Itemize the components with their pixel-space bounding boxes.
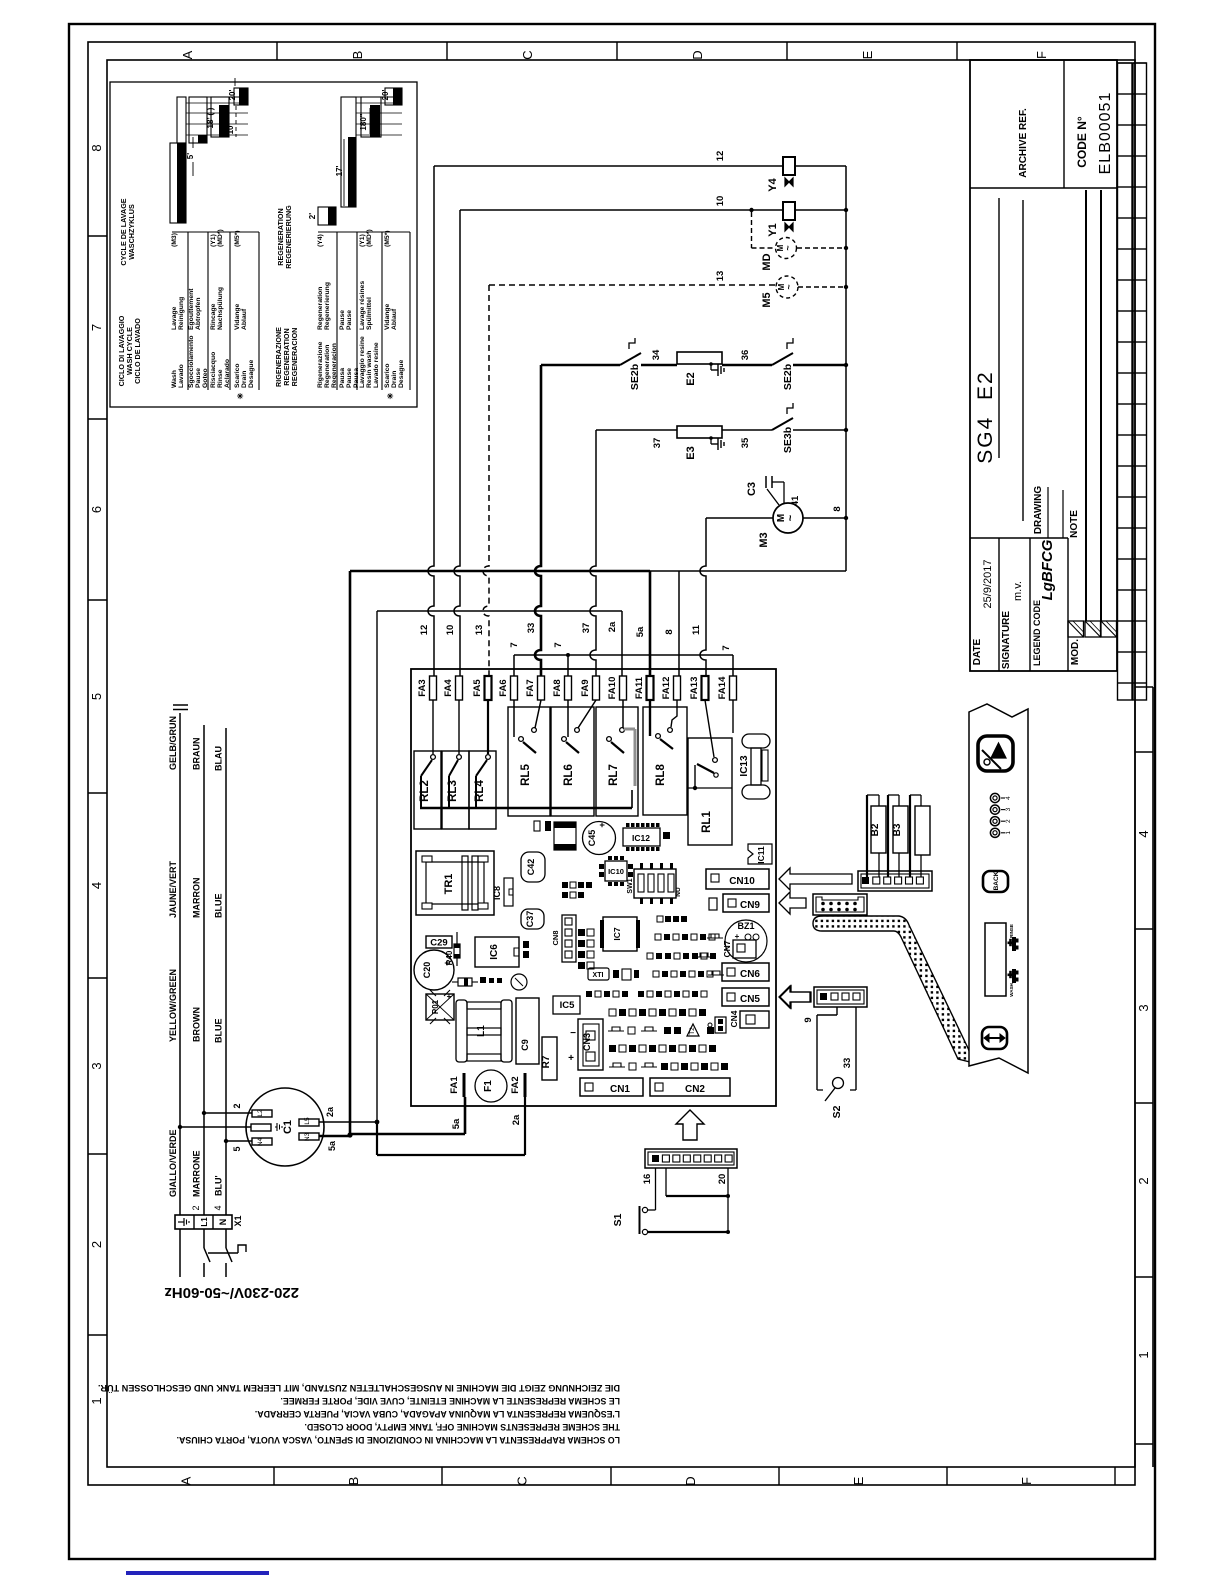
diode D	[452, 978, 478, 986]
svg-text:Lavaggio resine: Lavaggio resine	[359, 336, 366, 388]
svg-text:C42: C42	[526, 859, 536, 876]
svg-text:D: D	[683, 1476, 698, 1485]
IC11	[748, 844, 772, 864]
net 7 stub FA8	[553, 642, 570, 676]
svg-text:4: 4	[1005, 796, 1012, 800]
svg-text:FA8: FA8	[552, 679, 563, 696]
svg-text:BROWN: BROWN	[192, 1007, 202, 1042]
relay RL4	[469, 700, 496, 829]
capacitor C29	[426, 936, 452, 949]
solenoid Y1	[767, 202, 848, 237]
net 13 wire M5	[474, 271, 776, 676]
PCB board outline	[411, 669, 776, 1106]
svg-text:P01: P01	[431, 999, 440, 1014]
svg-text:FA5: FA5	[472, 679, 483, 697]
svg-text:M5: M5	[761, 292, 773, 307]
svg-text:5: 5	[232, 1146, 242, 1151]
panel rinse icon	[1008, 924, 1019, 951]
svg-text:L1: L1	[200, 1217, 209, 1227]
svg-text:7: 7	[553, 642, 564, 647]
svg-text:MARRONE: MARRONE	[192, 1151, 202, 1198]
svg-text:16: 16	[642, 1174, 653, 1185]
svg-text:Y1: Y1	[767, 223, 779, 236]
svg-text:E: E	[860, 50, 875, 59]
svg-text:IC13: IC13	[739, 755, 750, 777]
svg-text:Regeneration: Regeneration	[317, 287, 324, 330]
svg-text:4: 4	[89, 882, 104, 889]
net 2a horizontal	[377, 610, 622, 612]
svg-text:B: B	[350, 51, 365, 60]
connector CN10	[706, 869, 769, 889]
svg-text:E2: E2	[685, 372, 697, 385]
arrow 4-pin	[780, 986, 811, 1008]
svg-text:5: 5	[89, 693, 104, 700]
svg-text:+: +	[735, 932, 740, 941]
svg-text:LO SCHEMA RAPPRESENTA LA MACCH: LO SCHEMA RAPPRESENTA LA MACCHINA IN CON…	[177, 1435, 620, 1445]
svg-text:FA9: FA9	[580, 679, 591, 696]
svg-text:CN4: CN4	[729, 1010, 739, 1027]
svg-text:NU: NU	[675, 887, 682, 897]
svg-text:2': 2'	[308, 213, 317, 219]
IC10	[599, 856, 633, 886]
svg-text:E: E	[851, 1476, 866, 1485]
svg-text:SE2b: SE2b	[629, 364, 641, 390]
fuse FA10	[607, 676, 627, 700]
svg-text:RL7: RL7	[608, 764, 620, 786]
fuse FA4	[443, 676, 463, 700]
wire earth giallo/verde	[168, 705, 188, 1215]
svg-text:10: 10	[715, 196, 726, 207]
fuse FA13	[689, 676, 709, 700]
svg-text:Drain: Drain	[391, 371, 398, 388]
svg-text:JAUNE/VERT: JAUNE/VERT	[168, 860, 178, 918]
svg-text:Pause: Pause	[339, 310, 346, 330]
svg-text:C37: C37	[525, 911, 535, 928]
smd row h	[609, 1009, 706, 1016]
svg-text:20: 20	[717, 1174, 728, 1185]
svg-text:8: 8	[89, 144, 104, 151]
svg-text:1: 1	[1005, 831, 1012, 835]
svg-text:10: 10	[445, 625, 456, 636]
svg-text:F: F	[1034, 51, 1049, 59]
fuse FA11	[634, 676, 654, 700]
svg-text:A: A	[180, 50, 195, 59]
svg-text:SIGNATURE: SIGNATURE	[1001, 611, 1012, 669]
svg-text:RL3: RL3	[447, 780, 459, 802]
svg-text:ARCHIVE REF.: ARCHIVE REF.	[1018, 108, 1029, 178]
svg-text:L1: L1	[476, 1025, 487, 1037]
resistor R7	[541, 1037, 557, 1080]
svg-text:FA4: FA4	[443, 679, 454, 697]
svg-text:C: C	[520, 50, 535, 59]
svg-text:BLUE: BLUE	[214, 894, 224, 919]
svg-text:Drain: Drain	[241, 371, 248, 388]
svg-text:BLUE: BLUE	[214, 1019, 224, 1044]
svg-text:REGENERIERUNG: REGENERIERUNG	[284, 205, 293, 269]
driver IC13	[733, 700, 770, 799]
svg-text:37: 37	[652, 438, 663, 449]
svg-text:5a: 5a	[327, 1140, 337, 1151]
svg-text:RL1: RL1	[701, 811, 713, 833]
svg-text:IC7: IC7	[612, 927, 622, 941]
svg-text:DATE: DATE	[972, 638, 983, 665]
capacitor C9	[516, 998, 539, 1064]
switch S1	[612, 1168, 730, 1235]
svg-text:13: 13	[474, 625, 485, 636]
svg-text:CN5: CN5	[740, 994, 760, 1005]
thermostat SE2b right	[722, 338, 848, 390]
svg-text:FA11: FA11	[634, 676, 645, 699]
svg-text:2a: 2a	[511, 1114, 522, 1125]
svg-text:Pausa: Pausa	[339, 368, 346, 388]
svg-text:8: 8	[664, 629, 675, 634]
IC6	[475, 937, 529, 967]
smd row k	[609, 1063, 728, 1070]
relay RL5	[508, 700, 550, 816]
net 12 wire Y4	[419, 151, 783, 676]
svg-text:2: 2	[191, 1205, 201, 1210]
arrow to S1	[676, 1110, 704, 1140]
IC7	[600, 917, 640, 951]
svg-text:Y4: Y4	[767, 177, 779, 191]
svg-text:S2: S2	[831, 1105, 843, 1118]
heater E3	[677, 426, 751, 460]
led part	[511, 974, 527, 990]
svg-text:Scarico: Scarico	[234, 363, 241, 388]
svg-text:Resin wash: Resin wash	[366, 351, 373, 388]
svg-text:M3: M3	[758, 532, 770, 547]
svg-text:MD: MD	[761, 253, 773, 270]
svg-text:~: ~	[783, 245, 793, 250]
svg-text:RINSE: RINSE	[1009, 924, 1014, 938]
resistor B2	[867, 795, 886, 877]
panel start button	[978, 736, 1013, 771]
fuse FA3	[417, 676, 437, 700]
svg-text:IC10: IC10	[608, 867, 624, 876]
fuse FA2	[510, 1073, 527, 1097]
connector S1 strip	[642, 1149, 737, 1184]
fuse FA1	[449, 1073, 466, 1097]
svg-text:Desague: Desague	[248, 359, 255, 388]
svg-text:8: 8	[832, 506, 843, 511]
svg-text:CN1: CN1	[610, 1084, 630, 1095]
svg-text:20': 20'	[381, 90, 390, 101]
fuse FA5	[472, 676, 492, 700]
svg-text:Abtropfen: Abtropfen	[195, 298, 202, 330]
net 2a drop to FA10	[607, 611, 622, 676]
smd near XTI	[613, 969, 639, 980]
connector 4-pin	[814, 987, 867, 1007]
net 2a from C1	[319, 611, 525, 1155]
svg-text:GIALLO/VERDE: GIALLO/VERDE	[168, 1129, 178, 1197]
svg-text:RL6: RL6	[563, 764, 575, 786]
svg-text:IC6: IC6	[489, 944, 500, 960]
thermostat SE2b left	[620, 338, 641, 390]
svg-text:Rinse: Rinse	[217, 369, 224, 388]
svg-text:(Y1): (Y1)	[359, 234, 366, 247]
svg-text:Desague: Desague	[398, 359, 405, 388]
smd cluster b	[578, 929, 594, 969]
smd near D	[480, 977, 502, 983]
IC5	[553, 996, 580, 1014]
svg-text:5a: 5a	[451, 1118, 462, 1129]
svg-text:C3: C3	[746, 482, 758, 496]
IC12	[623, 823, 670, 851]
crystal and smd row top	[534, 821, 576, 850]
svg-text:7: 7	[509, 642, 520, 647]
svg-text:4: 4	[213, 1205, 223, 1210]
svg-text:BLU': BLU'	[214, 1175, 224, 1196]
svg-text:FA12: FA12	[661, 677, 672, 700]
svg-text:SE2b: SE2b	[782, 364, 794, 390]
motor M5 dashed	[761, 276, 848, 308]
relay RL2	[414, 700, 441, 829]
svg-text:LEGEND CODE: LEGEND CODE	[1032, 600, 1042, 666]
svg-text:Vidange: Vidange	[384, 303, 391, 330]
svg-text:3: 3	[89, 1062, 104, 1069]
svg-text:2: 2	[89, 1241, 104, 1248]
smd row j	[609, 1045, 716, 1052]
svg-text:m.v.: m.v.	[1012, 581, 1024, 601]
svg-text:220-230V/~50-60Hz: 220-230V/~50-60Hz	[164, 1284, 299, 1301]
svg-text:FA10: FA10	[607, 677, 618, 700]
smd row e	[647, 953, 716, 959]
svg-text:2: 2	[1136, 1177, 1151, 1184]
svg-text:(Y1): (Y1)	[210, 234, 217, 247]
svg-text:THE SCHEME REPRESENTS MACHINE: THE SCHEME REPRESENTS MACHINE OFF, TANK …	[304, 1422, 620, 1432]
label 220-230V supply	[164, 1284, 299, 1301]
svg-text:25/9/2017: 25/9/2017	[982, 560, 994, 609]
panel leds	[990, 793, 1012, 837]
svg-text:SE3b: SE3b	[782, 427, 794, 453]
relay RL6	[551, 700, 596, 816]
fuse FA9	[580, 676, 600, 700]
svg-text:2: 2	[1005, 819, 1012, 823]
svg-text:6: 6	[89, 506, 104, 513]
svg-text:TR1: TR1	[443, 874, 455, 895]
svg-text:Lavado resine: Lavado resine	[373, 342, 380, 388]
svg-text:FA1: FA1	[449, 1076, 460, 1094]
fuse FA12	[661, 676, 681, 700]
svg-text:+: +	[444, 958, 449, 968]
crystal XTI	[588, 968, 609, 980]
svg-text:Lavage résines: Lavage résines	[359, 281, 366, 330]
svg-text:Pause: Pause	[195, 368, 202, 388]
svg-text:N4: N4	[257, 1137, 264, 1146]
svg-text:13: 13	[715, 271, 726, 282]
switch S2	[803, 1007, 856, 1118]
svg-text:B: B	[346, 1477, 361, 1486]
svg-text:✳: ✳	[236, 392, 245, 399]
svg-text:CN10: CN10	[729, 876, 755, 887]
terminal block X1	[175, 1205, 243, 1229]
connector 10-pin	[813, 894, 867, 915]
connector CN2	[650, 1078, 730, 1096]
svg-text:Scarico: Scarico	[384, 363, 391, 388]
svg-text:BZ1: BZ1	[737, 921, 754, 931]
svg-text:Egouttement: Egouttement	[188, 288, 195, 330]
capacitor C3	[746, 476, 801, 506]
arrow CN9	[779, 892, 806, 914]
svg-text:LE SCHEMA REPRESENTE LA MACHIN: LE SCHEMA REPRESENTE LA MACHINE ETEINTE,…	[280, 1396, 620, 1406]
svg-text:IC5: IC5	[560, 1000, 576, 1011]
svg-text:(M5*): (M5*)	[384, 230, 391, 247]
connector CN3	[568, 1019, 603, 1070]
svg-text:RL8: RL8	[655, 764, 667, 786]
svg-text:35: 35	[740, 437, 751, 448]
panel display	[985, 923, 1006, 996]
net 37 wire	[581, 430, 677, 676]
svg-text:BLAU: BLAU	[214, 746, 224, 771]
IC8	[492, 878, 513, 906]
connector CN4	[729, 1010, 769, 1028]
svg-text:3: 3	[1136, 1004, 1151, 1011]
net 5a drop to FA11 thick	[635, 571, 650, 676]
smd row c	[657, 916, 687, 922]
svg-text:L5: L5	[304, 1117, 311, 1125]
svg-text:FA2: FA2	[510, 1076, 521, 1093]
thermostat SE3b	[722, 403, 848, 453]
net 33 wire thick	[526, 365, 620, 676]
relay RL7	[596, 700, 638, 816]
heater E2	[641, 349, 751, 386]
svg-text:5a: 5a	[635, 626, 646, 637]
smd cluster a	[562, 882, 592, 898]
svg-text:WASCHZYKLUS: WASCHZYKLUS	[127, 204, 136, 260]
connector CN8	[551, 915, 576, 962]
svg-text:4: 4	[1136, 830, 1151, 837]
connector CN5	[722, 988, 769, 1006]
choke L1	[456, 1000, 512, 1062]
svg-text:BACK: BACK	[993, 871, 1000, 890]
resistor B4	[910, 795, 930, 877]
transformer TR1	[416, 851, 494, 915]
net 10 wire Y1	[445, 196, 783, 676]
svg-text:C9: C9	[520, 1039, 530, 1051]
svg-text:RL2: RL2	[419, 780, 431, 802]
svg-text:(M3): (M3)	[171, 233, 178, 247]
svg-text:Spülmittel: Spülmittel	[366, 297, 373, 330]
svg-text:11: 11	[691, 624, 702, 635]
relay RL8	[643, 700, 687, 815]
transistor T2	[687, 1024, 699, 1036]
svg-text:XTI: XTI	[593, 972, 604, 979]
svg-text:REGENERACION: REGENERACION	[290, 328, 299, 387]
svg-text:Nachspülung: Nachspülung	[217, 287, 224, 330]
svg-text:C29: C29	[430, 938, 447, 949]
svg-text:Lavage: Lavage	[171, 306, 178, 330]
filter capacitor C1	[246, 1088, 324, 1166]
svg-text:+: +	[568, 1053, 574, 1064]
resistor R40	[445, 932, 460, 966]
svg-text:E3: E3	[685, 446, 697, 459]
net 7 stub FA6	[509, 642, 520, 676]
svg-text:(Y4): (Y4)	[317, 234, 324, 247]
relay RL1	[688, 700, 732, 845]
svg-text:GELB/GRUN: GELB/GRUN	[168, 716, 178, 770]
smd row d	[655, 934, 723, 940]
smd row g	[586, 991, 707, 997]
svg-text:2: 2	[232, 1103, 242, 1108]
svg-text:MARRON: MARRON	[192, 878, 202, 919]
panel wash icon	[1008, 969, 1019, 997]
svg-text:RL5: RL5	[520, 764, 532, 786]
svg-text:33: 33	[842, 1058, 853, 1069]
svg-text:DIE ZEICHNUNG ZEIGT DIE MACHIN: DIE ZEICHNUNG ZEIGT DIE MACHINE IN AUSGE…	[98, 1383, 620, 1393]
svg-text:CN2: CN2	[685, 1084, 705, 1095]
svg-text:CN3: CN3	[582, 1033, 592, 1051]
svg-text:CN6: CN6	[740, 969, 760, 980]
svg-text:7: 7	[721, 645, 732, 650]
svg-text:Wash: Wash	[171, 370, 178, 388]
front panel strip	[969, 704, 1028, 1073]
svg-text:~: ~	[784, 284, 794, 289]
svg-text:FA7: FA7	[525, 679, 536, 696]
svg-text:FA14: FA14	[717, 676, 728, 699]
svg-text:+: +	[597, 822, 607, 827]
svg-text:CODE N°: CODE N°	[1075, 116, 1089, 168]
smd row f	[653, 971, 724, 977]
svg-text:R7: R7	[541, 1055, 552, 1068]
svg-text:Lavado: Lavado	[178, 364, 185, 388]
svg-text:Pause: Pause	[346, 310, 353, 330]
buzzer BZ1	[722, 920, 767, 962]
net 5a/8 horizontal bus	[350, 570, 846, 572]
arrow CN10	[779, 868, 852, 890]
svg-text:Regenerierung: Regenerierung	[324, 282, 331, 330]
svg-text:B2: B2	[870, 823, 881, 836]
svg-text:SW1: SW1	[627, 878, 634, 893]
relay common bus	[420, 790, 632, 808]
svg-text:CN7: CN7	[722, 940, 732, 957]
svg-text:T2: T2	[689, 1027, 696, 1035]
grey trace RL7	[624, 729, 635, 786]
capacitor C45	[583, 822, 616, 855]
svg-text:180": 180"	[359, 113, 368, 130]
svg-text:FA13: FA13	[689, 677, 700, 700]
svg-text:CICLO DE LAVADO: CICLO DE LAVADO	[133, 318, 142, 384]
net 7 stub FA14	[721, 645, 733, 676]
svg-text:5': 5'	[186, 153, 195, 159]
svg-text:1: 1	[1136, 1351, 1151, 1358]
svg-text:37: 37	[581, 623, 592, 634]
net 7 horizontal	[514, 654, 733, 656]
svg-text:C1: C1	[282, 1120, 294, 1134]
fuse FA8	[552, 676, 572, 700]
svg-text:LgBFCG: LgBFCG	[1039, 539, 1056, 600]
svg-text:9: 9	[803, 1017, 814, 1022]
svg-text:IC8: IC8	[492, 886, 502, 900]
svg-text:Ablauf: Ablauf	[391, 308, 398, 330]
svg-text:3: 3	[1005, 807, 1012, 811]
svg-text:NOTE: NOTE	[1069, 510, 1080, 538]
svg-text:WASH: WASH	[1009, 983, 1014, 997]
svg-text:FA6: FA6	[498, 679, 509, 696]
arrow CN5	[779, 986, 810, 1008]
svg-text:F1: F1	[483, 1080, 494, 1092]
svg-text:2a: 2a	[607, 621, 618, 632]
bridge rectifier P01	[426, 990, 454, 1024]
svg-text:10': 10'	[226, 124, 235, 135]
svg-text:N: N	[218, 1219, 228, 1226]
svg-text:CN8: CN8	[551, 930, 560, 945]
svg-text:Regeneration: Regeneration	[324, 345, 331, 388]
resistor B3	[888, 795, 908, 877]
panel arrows button	[982, 1027, 1007, 1049]
svg-text:17': 17'	[335, 166, 344, 177]
motor M3	[706, 503, 848, 548]
svg-text:X1: X1	[233, 1215, 243, 1226]
